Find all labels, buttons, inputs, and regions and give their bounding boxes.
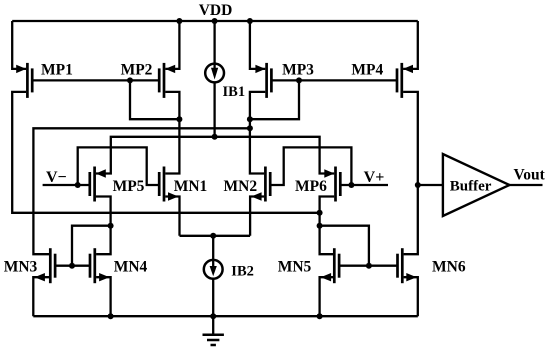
svg-text:Vout: Vout [514,166,546,183]
wire MN2 gate bracket to V+ [270,147,351,185]
wire V+ lead [340,184,388,186]
node rail MP3 source [247,18,253,24]
svg-text:MN6: MN6 [432,258,466,275]
transistor MN2 [251,167,270,202]
svg-text:MN2: MN2 [224,178,258,195]
svg-text:MN5: MN5 [278,258,312,275]
wire MP1-MP2 gate line [32,79,159,81]
svg-text:MN3: MN3 [4,258,38,275]
wire IB1 bottom lead [213,83,215,137]
svg-text:MP2: MP2 [121,62,153,79]
node rail MP2 source [176,18,182,24]
ground symbol [203,316,224,345]
node V- tap [75,182,81,188]
svg-text:IB2: IB2 [231,264,254,280]
transistor MP1 [16,63,32,98]
transistor MP4 [397,63,413,98]
wire MN3 source to ground [33,277,49,316]
wire MN6 source to ground [404,277,418,316]
transistor MP3 [255,63,271,98]
node MN5 source ground [317,313,323,319]
node MN3/MN4 gates [69,263,75,269]
wire MP3 drain / MN2 drain [250,92,265,174]
node MP3 drain-gate [247,116,253,122]
wire MP3 diode gate-drain [250,80,299,119]
wire buffer input lead [418,184,443,186]
wire bracket to MN3/MN4 gates [72,226,111,266]
VDD rail [12,20,418,22]
transistor MN4 [90,248,110,283]
wire PMOS pair common sources to IB1 [96,137,334,174]
svg-text:V−: V− [46,169,67,186]
wire IB2 top lead [212,236,214,260]
ground rail [33,315,418,317]
wire MP5 drain to MN4 drain [96,197,111,255]
svg-text:MN1: MN1 [174,178,208,195]
wire MP3-MP4 gate line [271,79,397,81]
transistor MN5 [321,248,339,283]
svg-text:IB1: IB1 [223,84,246,100]
wire MN5 source to ground [320,277,333,316]
transistor MP2 [159,63,175,98]
svg-text:MP4: MP4 [351,62,383,79]
wire IB1 top lead [213,21,215,63]
current source IB2 [204,260,223,279]
node buffer input [415,182,421,188]
wire MN2 source to tail [250,197,264,236]
wire V- lead [43,184,90,186]
wire MN1 source to tail [165,197,179,236]
node MP3 gate tap [296,77,302,83]
transistor MN1 [159,167,178,202]
wire NMOS pair tail U [180,235,251,237]
transistor MP6 [324,167,340,202]
node tail to IB2 [210,233,216,239]
svg-text:MP5: MP5 [113,178,145,195]
wire MN4 source to ground [96,277,111,316]
wire MN5-MN6 gate line [339,265,397,267]
svg-text:Buffer: Buffer [450,179,492,195]
svg-text:MN4: MN4 [114,258,148,275]
wire MP2 drain / MN1 drain [165,92,179,174]
svg-text:MP1: MP1 [41,62,73,79]
svg-text:MP6: MP6 [295,178,327,195]
wire V- bracket to MN1 gate [78,147,160,185]
wire MP1 source from VDD [12,21,26,69]
wire Vout lead [510,184,543,186]
node second rail right end [317,210,323,216]
node MN5/MN6 gates [366,263,372,269]
node MP2 drain-gate [176,116,182,122]
transistor MN6 [398,248,417,283]
wire MN3-MN4 gate line [55,265,90,267]
svg-text:VDD: VDD [199,2,233,19]
node MN4 source ground [108,313,114,319]
node IB1 to pair sources [212,134,218,140]
wire MP1 drain to second rail to MP6 drain [12,92,319,213]
node rail IB1 [212,18,218,24]
wire MP2 source [165,21,179,69]
node IB2 ground [210,313,216,319]
node MN5/MN6 mirror tap [317,223,323,229]
wire MP4 drain / MN6 drain column [403,92,418,254]
node MP2 gate tap [127,77,133,83]
node mirror line right end [247,125,253,131]
wire MP2 diode gate-drain [130,80,179,119]
current source IB1 [205,62,224,82]
transistor MP5 [90,167,106,202]
node V+ tap [348,182,354,188]
wire MP4 source from rail corner [403,21,418,69]
svg-text:V+: V+ [364,169,385,186]
svg-text:MP3: MP3 [282,62,314,79]
node MN3/MN4 mirror tap [108,223,114,229]
wire MP3 source [250,21,265,69]
transistor MN3 [35,248,56,283]
wire bracket to MN5/MN6 gates [320,226,369,266]
wire IB2 bottom lead [212,279,214,317]
op-amp buffer [443,154,510,216]
wire MP6 drain to MN5 drain [320,197,335,255]
wire mirror line MP3 drain to MN3 drain [33,128,250,254]
